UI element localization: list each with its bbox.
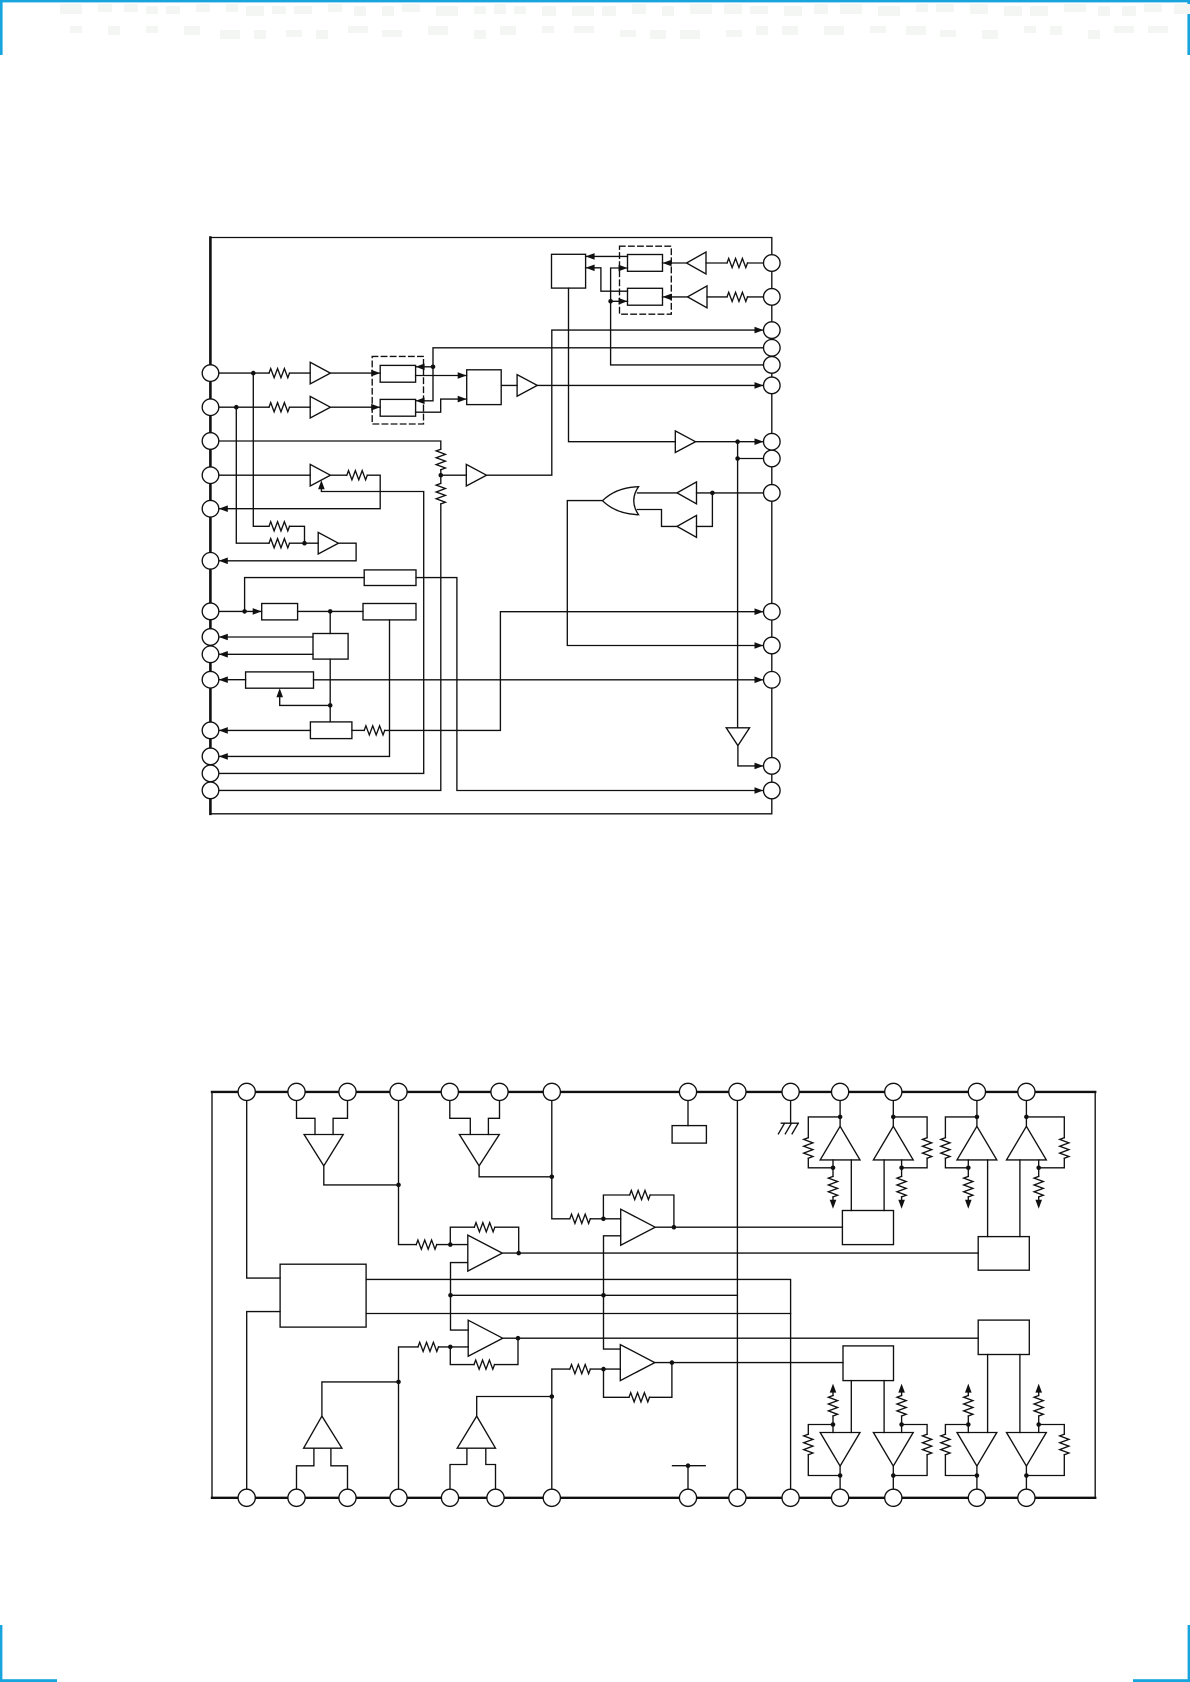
wire top pin 5 to funnel F2 — [450, 1092, 471, 1135]
buffer A3 — [675, 431, 695, 453]
junction F3 output / pin-4 rail — [396, 1380, 401, 1385]
wire block BL output A to bottom pin 10 — [366, 1279, 790, 1497]
IC2 outline — [212, 1092, 1095, 1498]
wire amp PA6 to mute block — [883, 1381, 885, 1433]
power amp PA6 (down-pointing) — [873, 1433, 913, 1467]
buffer A12 — [318, 532, 338, 554]
wire pin L3 to divider — [219, 441, 441, 449]
wire junction down to BOX3 — [329, 611, 331, 633]
wire pin L2 to resistor R4a — [219, 406, 269, 408]
power amp PA7 (down-pointing) — [957, 1433, 997, 1467]
power amp PA5 (down-pointing) — [820, 1433, 860, 1467]
pin 14 (IC1 left) — [202, 782, 219, 799]
resistor R14a — [570, 1365, 591, 1374]
pin 24 (IC2 bottom) — [782, 1489, 799, 1506]
wire buffer A1 to P1 — [663, 262, 688, 264]
power amp PA2 (up-pointing) — [873, 1126, 913, 1160]
junction OP1 output — [516, 1251, 521, 1256]
feedback resistor R11b around OP1 — [450, 1227, 474, 1244]
wire pin R5 to P1/P2 inputs — [611, 268, 764, 365]
pin 16 (IC1 right) — [764, 289, 781, 306]
bias resistor R25b of PA5 — [832, 1416, 834, 1433]
wire OP4 output to block R3 — [655, 1362, 843, 1364]
wire block BL output B — [366, 1313, 790, 1315]
pin 9 (IC2 top) — [729, 1083, 746, 1100]
wire buffer A4 to pin R13 — [738, 746, 764, 766]
pin 26 (IC2 bottom) — [885, 1489, 902, 1506]
pin 17 (IC1 right) — [764, 322, 781, 339]
pin 11 (IC2 top) — [832, 1083, 849, 1100]
pin 19 (IC2 bottom) — [441, 1489, 458, 1506]
wire RC output to RE — [298, 610, 363, 612]
right edge cyan mark — [1187, 0, 1190, 55]
op-amp OP3 — [468, 1320, 503, 1356]
pin 28 (IC2 bottom) — [1018, 1489, 1035, 1506]
junction resistors R7a/R7b — [302, 541, 307, 546]
power amp PA4 (up-pointing) — [1007, 1126, 1047, 1160]
junction on RC output — [328, 609, 333, 614]
wire top pin 2 to funnel F1 — [297, 1092, 316, 1135]
resistor R8a — [364, 726, 385, 735]
block MR4 (mute) — [978, 1320, 1029, 1354]
wire buffer A3 to pin R7 — [696, 441, 764, 443]
pin 21 (IC1 right) — [764, 433, 781, 450]
block RF (reference) — [672, 1126, 706, 1144]
wire bottom pin 6 to amp F4 — [486, 1448, 496, 1498]
pin 4 (IC1 left) — [202, 467, 219, 484]
wire amp PA7 to mute block — [987, 1355, 989, 1433]
junction on R5 riser — [608, 299, 613, 304]
wire P2 output to U1 — [586, 268, 628, 291]
pin 7 (IC2 top) — [543, 1083, 560, 1100]
amp F4 (up-pointing) — [457, 1416, 495, 1448]
gain resistor R27a of PA7 — [945, 1455, 977, 1476]
wire amp PA4 to mute block — [1019, 1160, 1021, 1237]
pin 15 (IC1 right) — [764, 255, 781, 272]
pin 18 (IC2 bottom) — [390, 1489, 407, 1506]
pin 3 (IC1 left) — [202, 433, 219, 450]
junction OP2 inverting input — [601, 1217, 606, 1222]
bottom-right cyan corner mark — [1188, 1625, 1190, 1682]
wire bottom pin 8 to common bar — [687, 1466, 689, 1498]
pin 20 (IC1 right) — [764, 377, 781, 394]
wire bottom pin to amp PA7 — [976, 1466, 978, 1498]
junction OP4 inverting input — [601, 1367, 606, 1372]
pin 22 (IC2 bottom) — [679, 1489, 696, 1506]
resistor R2a — [727, 292, 748, 301]
block RECT5 — [246, 672, 314, 688]
junction amp PA8 input — [1024, 1473, 1029, 1478]
block RC — [262, 604, 298, 620]
bias resistor R27b of PA7 — [967, 1416, 969, 1433]
wire resistor R6a to pin L5 — [219, 475, 380, 509]
wire resistor R14a to OP4 — [590, 1368, 620, 1370]
resistor R1a — [727, 258, 748, 267]
wire OP1 lower input chain to OP3 — [451, 1263, 469, 1331]
junction OP3 output — [516, 1336, 521, 1341]
block RD — [364, 570, 416, 586]
wire down to buffer A4 — [737, 459, 739, 728]
buffer A5 (left-pointing) — [677, 482, 697, 504]
feedback resistor R13b around OP3 — [450, 1347, 474, 1365]
wire buffer A9 to pin R6 — [537, 384, 763, 386]
wire top pin to amp PA2 — [892, 1092, 894, 1126]
power amp PA1 (up-pointing) — [820, 1126, 860, 1160]
pin 10 (IC1 left) — [202, 671, 219, 688]
wire BOX3 to pin L8 — [219, 636, 313, 638]
bias resistor R24b of PA4 — [1038, 1160, 1040, 1177]
junction amp PA2 input — [891, 1115, 896, 1120]
buffer A7 — [310, 362, 330, 384]
pin 2 (IC1 left) — [202, 399, 219, 416]
junction on BOX3-BOX4 wire — [328, 703, 333, 708]
pin 5 (IC2 top) — [441, 1083, 458, 1100]
pin 25 (IC2 bottom) — [832, 1489, 849, 1506]
wire top pin 1 to block BL — [247, 1092, 280, 1278]
wire RD output to pin R14 — [416, 578, 764, 791]
wire amp F3 output to bottom pin-4 rail — [322, 1382, 399, 1416]
pin 25 (IC1 right) — [764, 637, 781, 654]
wire bottom pin to amp PA8 — [1025, 1466, 1027, 1498]
gain resistor R21a of PA1 — [808, 1117, 840, 1138]
gain resistor R25a of PA5 — [808, 1455, 840, 1476]
pin 1 (IC2 top) — [238, 1083, 255, 1100]
wire resistor R1a to buffer A1 — [706, 262, 727, 264]
junction amp PA6 input — [891, 1473, 896, 1478]
pin 12 (IC2 top) — [885, 1083, 902, 1100]
wire resistor R7a join — [290, 526, 305, 543]
power amp PA3 (up-pointing) — [957, 1126, 997, 1160]
buffer A2 (left-pointing) — [688, 286, 708, 308]
feedback resistor R12b around OP2 — [603, 1195, 629, 1219]
bias resistor R21b of PA1 — [832, 1160, 834, 1177]
feedback wire pin L13 to buffer A11 control — [219, 486, 424, 774]
junction OP2 output — [672, 1225, 677, 1230]
wire junction to RECT5 control input — [280, 694, 331, 706]
wire resistor R11a to op-amp OP1 — [437, 1244, 468, 1246]
wire resistor R13a to OP3 — [439, 1346, 469, 1348]
junction OP3 inverting input — [448, 1345, 453, 1350]
junction F4 output / pin-7 rail — [550, 1394, 555, 1399]
resistor R13a — [418, 1342, 439, 1351]
block RB — [380, 399, 415, 416]
buffer A10 — [466, 464, 486, 486]
wire OP2 output to block R1 — [655, 1226, 842, 1228]
buffer A11 — [310, 464, 330, 486]
bias resistor R22b of PA2 — [901, 1160, 903, 1177]
wire buffer A2 to P2 — [663, 296, 689, 298]
junction to pin R8 — [735, 456, 740, 461]
wire junction to P2 input — [611, 300, 628, 302]
pin 27 (IC1 right) — [764, 758, 781, 775]
wire bottom pin 7 rail to resistor R14a — [552, 1369, 570, 1498]
wire buffer A8 to RB — [330, 406, 380, 408]
junction on R4 riser — [431, 365, 436, 370]
wire junction to pin R8 — [738, 458, 764, 460]
pin 23 (IC1 right) — [764, 485, 781, 502]
signal common bar — [673, 1465, 706, 1467]
wire OP2 lower input riser to OP4 — [604, 1236, 621, 1349]
resistor R11a — [416, 1240, 437, 1249]
wire pin L1 to resistor R3a — [219, 372, 269, 374]
pin 5 (IC1 left) — [202, 500, 219, 517]
pin 24 (IC1 right) — [764, 603, 781, 620]
resistor R4a — [269, 403, 290, 412]
resistor R12a — [570, 1214, 591, 1223]
wire BOX3 down to BOX4 — [329, 659, 331, 722]
wire pin R1 to resistor R1a — [748, 262, 764, 264]
wire top pin 10 to chassis ground — [790, 1092, 792, 1123]
wire pin L7 to block RC — [219, 610, 262, 612]
wire amp F4 output to bottom pin-7 rail — [477, 1397, 552, 1417]
wire OP1 output to block R2 — [502, 1252, 978, 1254]
pin 22 (IC1 right) — [764, 450, 781, 467]
wire bottom pin 3 to amp F3 — [331, 1448, 348, 1498]
junction amp PA1 input — [838, 1115, 843, 1120]
junction amp PA4 input — [1024, 1115, 1029, 1120]
gain resistor R26a of PA6 — [893, 1455, 927, 1476]
wire amp PA2 to mute block — [883, 1160, 885, 1211]
wire OR gate G1 output to pin R11 — [567, 501, 763, 646]
OR gate G1 (left-pointing) — [603, 487, 639, 515]
junction F1 output / pin-4 rail — [396, 1183, 401, 1188]
wire top pin 3 to funnel F1 — [333, 1092, 347, 1135]
junction at common bar — [686, 1463, 691, 1468]
wire amp PA5 to mute block — [850, 1381, 852, 1433]
pin 26 (IC1 right) — [764, 672, 781, 689]
wire BOX4 to pin L11 — [219, 729, 311, 731]
wire junction down — [737, 442, 739, 459]
wire RECT5 to pin R12 — [314, 679, 764, 681]
gain resistor R23a of PA3 — [945, 1117, 977, 1138]
wire RECT5 to pin L10 — [219, 679, 246, 681]
wire bottom pin 1 to block BL — [247, 1312, 280, 1498]
chassis ground symbol — [778, 1123, 798, 1134]
amp F3 (up-pointing) — [304, 1416, 342, 1448]
wire bottom pin 4 rail to resistor R13a — [399, 1347, 419, 1498]
IC1 outline — [210, 238, 771, 814]
junction on OP1/OP3 riser — [448, 1293, 453, 1298]
top edge cyan trim line — [0, 0, 1190, 2]
pin 20 (IC2 bottom) — [487, 1489, 504, 1506]
pin 2 (IC2 top) — [288, 1083, 305, 1100]
pin 27 (IC2 bottom) — [968, 1489, 985, 1506]
junction on R9 wire — [710, 491, 715, 496]
block BOX4 — [310, 722, 352, 739]
wire L1 junction down to resistor R7a — [253, 373, 269, 526]
amp F1 (down-pointing) — [304, 1135, 343, 1166]
wire top pin 7 rail to resistor R12a — [552, 1092, 570, 1219]
bias resistor R28b of PA8 — [1038, 1416, 1040, 1433]
wire RB output to SB — [416, 399, 467, 412]
op-amp OP1 — [468, 1235, 503, 1271]
pin 21 (IC2 bottom) — [543, 1489, 560, 1506]
block SB — [467, 370, 502, 405]
wire pin R2 to resistor R2a — [748, 296, 764, 298]
pin 12 (IC1 left) — [202, 748, 219, 765]
bias rail wire — [451, 1294, 738, 1296]
wire resistor R8a to pin R10 — [385, 612, 764, 731]
block MR3 (mute) — [843, 1346, 894, 1381]
pin 23 (IC2 bottom) — [729, 1489, 746, 1506]
wire bottom pin 2 to amp F3 — [297, 1448, 314, 1498]
block RE — [363, 604, 416, 620]
op-amp OP2 — [621, 1209, 656, 1245]
wire buffer A7 to RA — [330, 372, 380, 374]
bias resistor R23b of PA3 — [967, 1160, 969, 1177]
dashed group box D2 — [372, 356, 423, 424]
block RA — [380, 365, 415, 382]
wire bottom pin to amp PA6 — [892, 1466, 894, 1498]
block P2 — [628, 288, 663, 305]
resistor R6a — [347, 471, 368, 480]
pin 4 (IC2 top) — [390, 1083, 407, 1100]
wire top pin to amp PA4 — [1025, 1092, 1027, 1126]
junction on L2 wire — [234, 405, 239, 410]
wire junction up to block RD — [245, 578, 365, 612]
wire buffer A12 to pin L6 — [219, 543, 356, 561]
junction on L1 wire — [251, 371, 256, 376]
wire amp F2 output to pin-7 rail — [479, 1166, 552, 1177]
wire top pin 8 to block RF — [687, 1092, 689, 1126]
junction amp PA3 input — [975, 1115, 980, 1120]
bottom-left cyan corner mark — [0, 1625, 2, 1682]
wire divider tap to buffer A10 — [441, 474, 467, 476]
gain resistor R28a of PA8 — [1026, 1455, 1064, 1476]
pin 14 (IC2 top) — [1018, 1083, 1035, 1100]
pin 6 (IC2 top) — [491, 1083, 508, 1100]
pin 15 (IC2 bottom) — [238, 1489, 255, 1506]
feedback resistor R14b around OP4 — [604, 1369, 630, 1397]
pin 18 (IC1 right) — [764, 340, 781, 357]
pin 13 (IC2 top) — [968, 1083, 985, 1100]
bias resistor R26b of PA6 — [901, 1416, 903, 1433]
junction OP1 inverting input — [448, 1242, 453, 1247]
block BOX3 — [313, 634, 348, 660]
wire buffer A10 to pin R3 — [487, 330, 764, 475]
amp F2 (down-pointing) — [459, 1135, 499, 1166]
buffer A1 (left-pointing) — [687, 252, 707, 274]
dashed group box D1 — [620, 246, 672, 314]
wire U1 output down to buffer A3 — [569, 288, 676, 442]
pin 9 (IC1 left) — [202, 646, 219, 663]
wire top pin to amp PA1 — [839, 1092, 841, 1126]
junction at A3 output — [735, 439, 740, 444]
pin 6 (IC1 left) — [202, 553, 219, 570]
wire bottom pin to amp PA5 — [839, 1466, 841, 1498]
wire top pin 9 rail through IC — [736, 1092, 738, 1498]
resistor R7a — [269, 522, 290, 531]
junction bias rail / OP2-OP4 riser — [601, 1293, 606, 1298]
wire amp PA3 to mute block — [987, 1160, 989, 1237]
wire pin R4 to RA/RB right-side inputs — [416, 348, 764, 401]
block BL (control logic) — [280, 1264, 366, 1327]
wire bottom pin 5 to amp F4 — [450, 1448, 467, 1498]
wire pin R9 to buffer A5 — [697, 492, 764, 494]
wire OP3 output to block R4 — [503, 1337, 979, 1339]
wire L2 junction down to resistor R7b — [236, 407, 269, 543]
pin 17 (IC2 bottom) — [339, 1489, 356, 1506]
wire buffer A5 to OR gate input — [638, 492, 677, 494]
block P1 — [628, 255, 663, 272]
faint ghost print-through at page top — [60, 4, 1190, 39]
wire amp PA8 to mute block — [1019, 1355, 1021, 1433]
pin 8 (IC1 left) — [202, 629, 219, 646]
resistor R3a — [269, 369, 290, 378]
junction amp PA5 input — [838, 1473, 843, 1478]
wire RA output to SB — [416, 375, 467, 377]
wire pin L4 to buffer A11 — [219, 474, 310, 476]
resistor R7b — [269, 539, 290, 548]
block U1 phase detector box — [552, 254, 586, 288]
junction F2 output / pin-7 rail — [550, 1175, 555, 1180]
buffer A8 — [310, 396, 330, 418]
pin 11 (IC1 left) — [202, 722, 219, 739]
wire RE output to pin L12 — [219, 620, 390, 757]
buffer A4 (down-pointing) — [726, 728, 749, 746]
junction at divider tap — [439, 473, 444, 478]
wire top pin to amp PA3 — [976, 1092, 978, 1126]
buffer A9 — [517, 375, 537, 397]
wire resistor R2a to buffer A2 — [707, 296, 727, 298]
wire junction to RA input — [416, 366, 433, 368]
buffer A6 (left-pointing) — [677, 515, 697, 537]
wire BOX4 to resistor R8a — [352, 729, 364, 731]
pin 7 (IC1 left) — [202, 603, 219, 620]
pin 28 (IC1 right) — [764, 782, 781, 799]
gain resistor R22a of PA2 — [893, 1117, 927, 1138]
pin 8 (IC2 top) — [679, 1083, 696, 1100]
resistor R5a — [436, 449, 445, 470]
power amp PA8 (down-pointing) — [1007, 1433, 1047, 1467]
wire divider bottom to pin L14 — [219, 504, 441, 791]
block MR1 (mute) — [842, 1211, 893, 1245]
block MR2 (mute) — [978, 1237, 1029, 1271]
pin 19 (IC1 right) — [764, 357, 781, 374]
pin 3 (IC2 top) — [339, 1083, 356, 1100]
wire P1 output to U1 — [586, 255, 628, 257]
wire top pin 6 to funnel F2 — [488, 1092, 499, 1135]
gain resistor R24a of PA4 — [1026, 1117, 1064, 1138]
wire SB output to buffer A9 — [501, 384, 517, 386]
wire resistor R12a to op-amp OP2 — [590, 1218, 620, 1220]
wire top pin 4 rail to resistor R11a — [399, 1092, 417, 1245]
resistor R5b — [436, 483, 445, 504]
wire amp PA1 to mute block — [850, 1160, 852, 1211]
wire amp F1 output to pin-4 rail — [324, 1166, 399, 1185]
wire buffer A6 to OR gate input — [638, 510, 678, 527]
junction on L7 wire — [242, 609, 247, 614]
wire BOX3 to pin L9 — [219, 653, 313, 655]
op-amp OP4 — [620, 1345, 655, 1381]
junction amp PA7 input — [975, 1473, 980, 1478]
wire junction down to buffer A6 — [697, 493, 713, 527]
pin 16 (IC2 bottom) — [288, 1489, 305, 1506]
pin 13 (IC1 left) — [202, 765, 219, 782]
pin 10 (IC2 top) — [782, 1083, 799, 1100]
left edge cyan mark — [0, 0, 3, 55]
junction OP4 output — [670, 1360, 675, 1365]
pin 1 (IC1 left) — [202, 365, 219, 382]
